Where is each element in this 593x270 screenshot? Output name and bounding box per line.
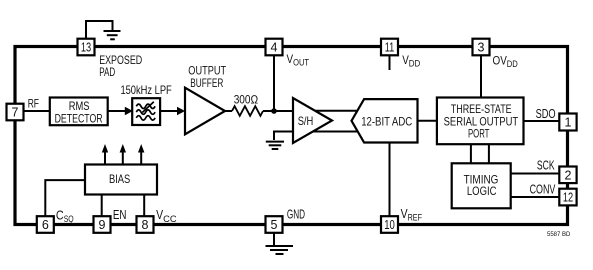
svg-text:11: 11 — [385, 41, 395, 55]
pin 5 — [266, 216, 283, 233]
svg-text:EN: EN — [113, 208, 127, 222]
wire pin13 to ground — [86, 21, 113, 40]
svg-text:12-BIT ADC: 12-BIT ADC — [361, 115, 412, 129]
wire pin5 GND to ground — [273, 233, 275, 246]
svg-text:RF: RF — [28, 96, 39, 110]
outer frame bus — [15, 47, 568, 225]
svg-text:PORT: PORT — [468, 126, 490, 140]
wire RF input — [23, 110, 50, 112]
svg-text:S/H: S/H — [298, 114, 314, 128]
pin 13 — [78, 39, 95, 56]
svg-text:7: 7 — [12, 106, 19, 120]
wire bus S/H to ADC bottom — [310, 131, 360, 133]
ground (exposed pad) — [104, 31, 121, 39]
wire pin8 VCC to bias — [143, 195, 145, 218]
svg-text:BIAS: BIAS — [109, 172, 130, 186]
svg-text:150kHz LPF: 150kHz LPF — [120, 83, 171, 97]
pin 12 — [559, 189, 576, 206]
pin 7 — [7, 104, 24, 121]
block three-state serial output port — [437, 98, 524, 145]
svg-text:1: 1 — [565, 116, 572, 130]
wire serial port to timing logic 2 — [488, 144, 490, 164]
wire CONV — [511, 196, 560, 198]
wire pin3 OVDD to serial port — [480, 55, 482, 98]
wire serial port to timing logic 1 — [470, 144, 472, 164]
block S/H — [293, 98, 332, 143]
wire pin9 EN to bias — [101, 195, 103, 218]
pin 8 — [137, 216, 154, 233]
pin 3 — [473, 39, 490, 56]
node junction dot — [271, 108, 277, 114]
svg-text:2: 2 — [565, 168, 572, 182]
wire VOUT from pin4 — [273, 55, 275, 111]
resistor R 300ohm — [232, 106, 263, 116]
wire SCK — [511, 173, 560, 175]
svg-text:SCK: SCK — [537, 159, 555, 173]
pin 10 — [381, 216, 398, 233]
wire ADC to serial port — [418, 120, 438, 122]
svg-text:300Ω: 300Ω — [234, 93, 259, 107]
svg-text:3: 3 — [478, 41, 485, 55]
wire pin6 CSQ to bias — [45, 180, 85, 217]
pin 4 — [266, 39, 283, 56]
svg-text:BUFFER: BUFFER — [190, 76, 223, 90]
svg-text:5: 5 — [271, 218, 278, 232]
svg-text:5587 BD: 5587 BD — [547, 231, 571, 238]
svg-text:SDO: SDO — [536, 107, 556, 121]
wire buffer to resistor — [224, 110, 232, 112]
wire SDO — [524, 120, 560, 122]
block 12-BIT ADC — [352, 99, 418, 142]
wire resistor to S/H — [263, 110, 294, 112]
pin 6 — [37, 216, 54, 233]
bias arrow 2 — [120, 144, 126, 165]
block BIAS — [85, 165, 157, 195]
block 150kHz LPF filter — [120, 83, 171, 125]
op-amp output buffer — [185, 64, 227, 135]
block RMS DETECTOR — [50, 98, 108, 126]
svg-text:13: 13 — [81, 41, 91, 55]
svg-text:LOGIC: LOGIC — [467, 184, 497, 198]
pin 2 — [559, 167, 576, 184]
svg-text:12: 12 — [563, 191, 573, 205]
pin 1 — [559, 114, 576, 131]
pin 9 — [94, 216, 111, 233]
svg-text:CONV: CONV — [530, 183, 556, 197]
svg-text:PAD: PAD — [99, 65, 115, 79]
bias arrow 1 — [102, 144, 108, 165]
ground (GND pin5) — [266, 246, 294, 254]
svg-text:8: 8 — [142, 218, 149, 232]
wire bus S/H to ADC top — [310, 110, 360, 112]
label EXPOSED PAD — [99, 53, 142, 79]
svg-text:10: 10 — [384, 218, 395, 232]
wire LPF to buffer — [160, 110, 178, 112]
wire S/H lower input to ground — [274, 132, 294, 141]
bias arrow 3 — [138, 144, 144, 165]
svg-text:DETECTOR: DETECTOR — [55, 111, 103, 125]
svg-text:4: 4 — [271, 41, 278, 55]
ground (S/H input) — [266, 142, 284, 149]
svg-text:GND: GND — [287, 208, 305, 222]
wire VREF pin10 to ADC — [389, 143, 391, 218]
block timing logic — [452, 163, 511, 208]
svg-text:9: 9 — [99, 218, 106, 232]
pin 11 — [381, 39, 398, 56]
svg-text:6: 6 — [42, 218, 49, 232]
wire stub pin11 VDD — [389, 55, 391, 70]
wire RMS to LPF — [107, 110, 126, 112]
